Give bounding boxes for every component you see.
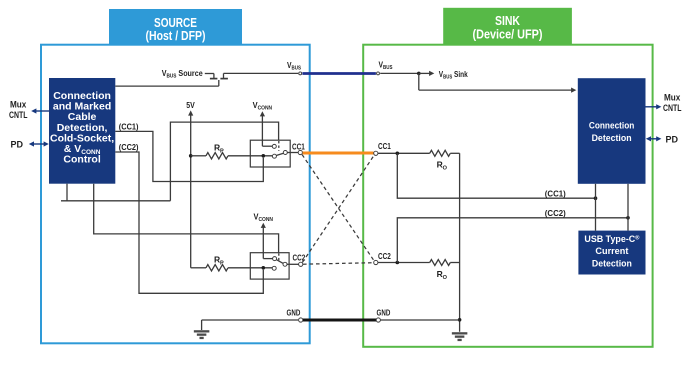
svg-text:Connection: Connection	[589, 120, 635, 131]
svg-text:CC1: CC1	[292, 142, 305, 152]
svg-text:USB Type-C®: USB Type-C®	[584, 234, 640, 245]
svg-text:(CC2): (CC2)	[545, 208, 566, 218]
svg-text:Cold-Socket,: Cold-Socket,	[50, 132, 114, 144]
svg-text:SOURCE: SOURCE	[154, 16, 197, 30]
svg-text:Mux: Mux	[10, 99, 26, 109]
svg-text:(CC1): (CC1)	[545, 188, 566, 198]
svg-text:PD: PD	[11, 140, 24, 150]
svg-text:5V: 5V	[186, 100, 195, 110]
svg-text:SINK: SINK	[495, 14, 520, 28]
svg-text:Control: Control	[63, 154, 100, 166]
svg-text:CNTL: CNTL	[663, 103, 682, 113]
svg-text:PD: PD	[666, 134, 679, 144]
svg-text:O: O	[443, 166, 448, 172]
svg-text:Current: Current	[595, 246, 629, 257]
svg-text:O: O	[443, 275, 448, 281]
svg-text:CC1: CC1	[378, 141, 391, 151]
svg-text:CNTL: CNTL	[9, 110, 28, 120]
svg-text:GND: GND	[377, 307, 391, 317]
svg-text:(CC1): (CC1)	[119, 121, 139, 131]
svg-text:(Host / DFP): (Host / DFP)	[146, 29, 206, 43]
svg-text:CC2: CC2	[378, 251, 391, 261]
svg-text:(Device/ UFP): (Device/ UFP)	[473, 27, 543, 41]
svg-text:(CC2): (CC2)	[119, 142, 139, 152]
svg-text:Mux: Mux	[664, 93, 680, 103]
svg-text:Detection: Detection	[592, 133, 632, 144]
svg-text:GND: GND	[287, 307, 301, 317]
svg-text:Detection: Detection	[592, 258, 632, 269]
